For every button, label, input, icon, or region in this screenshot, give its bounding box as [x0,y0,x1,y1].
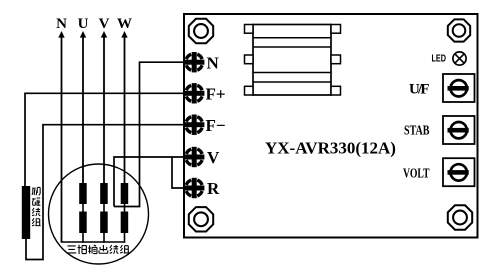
terminal F+ [184,83,204,103]
svg-text:U/F: U/F [409,82,430,98]
terminal N [184,52,204,72]
VOLT pot screw [448,164,469,180]
winding U stubs [82,204,84,212]
wire U phase vertical [82,37,84,185]
arrow U [80,31,86,38]
arrow W [121,31,127,38]
U/F pot screw [448,80,469,96]
svg-text:YX-AVR330(12A): YX-AVR330(12A) [265,139,396,158]
svg-text:LED: LED [432,52,447,64]
wire terminal N to winding tap [114,62,184,206]
terminal F- [184,115,204,135]
AVR board outline [184,14,478,238]
transformer T1 tabs right [331,25,341,34]
transformer T1 body [253,25,331,96]
arrow V [101,31,107,38]
winding V bottom bar [100,212,108,234]
wire terminal F+ to field winding top [25,93,184,186]
winding W top bar [121,183,129,204]
mounting hole top-right [448,19,470,41]
wire terminal V to winding tap [114,157,184,207]
winding U bottom bar [79,212,87,234]
mounting hole bottom-left [189,207,213,231]
wire N phase vertical [61,37,63,243]
terminal R [184,178,204,198]
STAB pot box [443,116,475,144]
svg-text:STAB: STAB [404,123,430,138]
terminal V [184,147,204,167]
svg-text:V: V [207,148,220,167]
svg-text:F−: F− [206,116,226,135]
svg-text:F+: F+ [206,85,226,104]
winding W bottom bar [121,212,129,234]
field winding resistor bar [22,186,30,239]
STAB pot screw [448,122,469,138]
svg-text:VOLT: VOLT [403,165,430,180]
svg-text:V: V [99,16,110,32]
winding V top bar [100,183,108,204]
wire V phase vertical [103,37,105,185]
winding W stubs [124,204,126,212]
U/F pot box [443,74,475,102]
wire W phase vertical [124,37,126,185]
VOLT pot box [443,158,475,186]
svg-text:U: U [78,16,89,32]
mounting hole top-left [189,19,213,43]
svg-text:W: W [117,16,132,32]
field winding label [32,187,41,225]
wire terminal R tap [172,157,184,188]
arrow N [58,31,64,38]
svg-text:N: N [56,16,67,32]
transformer T1 tabs left [245,25,254,34]
stator circle [49,164,149,264]
winding V stubs [103,204,105,212]
transformer T1 lamination lines [253,37,331,39]
three phase output winding label [67,245,129,254]
svg-text:R: R [207,179,220,198]
winding U top bar [79,183,87,204]
LED symbol [453,52,466,65]
svg-text:N: N [207,54,220,73]
wire star rail [61,241,125,243]
wire terminal F- to field winding bottom [26,125,184,260]
mounting hole bottom-right [448,205,472,229]
